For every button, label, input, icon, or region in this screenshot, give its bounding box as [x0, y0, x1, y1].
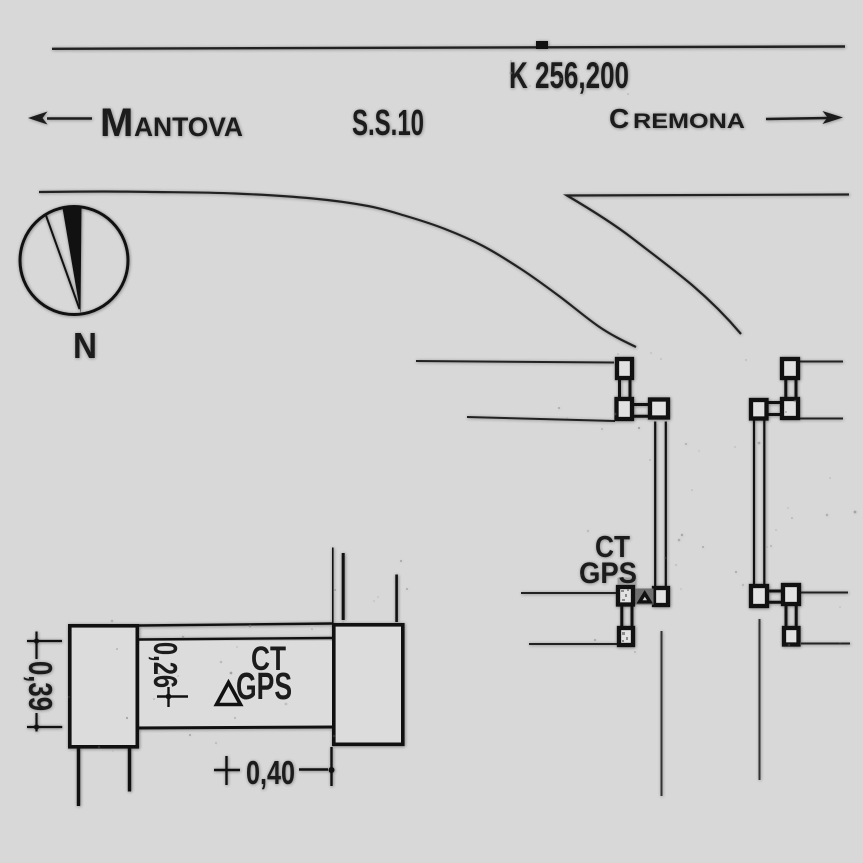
- post B upper bar square: [751, 400, 767, 419]
- post B upper junction square: [782, 399, 798, 418]
- svg-text:0,39: 0,39: [22, 661, 59, 711]
- side road line left of post A bottom: [521, 592, 616, 594]
- detail signal posts above right pillar: [332, 548, 334, 624]
- km marker square K256,200: [536, 41, 548, 49]
- post A upper crossbar: [634, 405, 650, 417]
- post A bottom neck: [622, 607, 632, 627]
- GPS station triangle marker: [637, 590, 654, 604]
- post B top square: [782, 359, 798, 378]
- post A upper bar square: [650, 400, 668, 418]
- road SS10 top edge line: [52, 47, 845, 49]
- post A upper junction square: [617, 399, 633, 419]
- side road line upper left of post A: [416, 361, 614, 363]
- lane line below post A: [661, 631, 663, 796]
- post B lower junction square: [783, 585, 799, 604]
- post B lower bar square: [751, 586, 767, 606]
- post B lower crossbar: [769, 591, 782, 602]
- svg-text:0,40: 0,40: [246, 754, 295, 791]
- post B bottom square: [784, 628, 799, 645]
- dimension 0,40 left tick cross: [214, 756, 240, 785]
- detail left pillar legs: [79, 749, 130, 807]
- post B upper crossbar: [768, 403, 780, 415]
- dimension 0,39 line and ticks: [27, 632, 62, 732]
- side road line right of post B mid: [800, 418, 843, 420]
- road lower edge curve (left carriageway): [39, 192, 636, 348]
- post B bottom neck: [786, 606, 796, 626]
- svg-text:GPS: GPS: [236, 666, 292, 708]
- post B top neck: [786, 380, 796, 397]
- side road line lower left of post A bottom: [529, 643, 617, 645]
- detail beam interior: [140, 641, 332, 726]
- compass needle black wedge: [63, 207, 82, 314]
- detail beam top outer line: [139, 624, 333, 626]
- svg-text:ANTOVA: ANTOVA: [134, 112, 243, 142]
- svg-text:K 256,200: K 256,200: [509, 55, 629, 96]
- side road line right of post B bottom: [801, 592, 848, 594]
- post A lower bar square: [654, 588, 668, 605]
- side road line lower left of post A: [467, 417, 615, 421]
- svg-text:GPS: GPS: [579, 557, 637, 590]
- svg-text:S.S.10: S.S.10: [352, 102, 424, 143]
- side road line right of post B top: [800, 361, 843, 363]
- lane line below post B: [759, 619, 761, 780]
- post B long bar: [754, 421, 764, 585]
- detail beam top inner line: [139, 638, 333, 640]
- road median line and curve (right carriageway): [567, 195, 849, 335]
- svg-text:C: C: [609, 103, 629, 134]
- compass needle thin line: [46, 216, 80, 310]
- post A top square: [617, 359, 632, 378]
- post A long bar: [655, 422, 666, 587]
- scan speckle noise: [68, 60, 856, 752]
- dimension 0,40 right extension line: [330, 747, 332, 786]
- compass circle: [20, 207, 128, 315]
- post A bottom square: [619, 628, 633, 645]
- detail left pillar rectangle: [70, 626, 138, 747]
- post A top neck: [620, 380, 631, 398]
- GPS station shading band: [635, 589, 654, 605]
- dimension 0,26 tick cross: [157, 687, 188, 707]
- post A lower junction square: [618, 587, 633, 605]
- svg-text:N: N: [73, 325, 97, 366]
- detail GPS triangle symbol: [217, 683, 241, 705]
- side road line lower right of post B bottom: [801, 643, 850, 645]
- dimension 0,40 line: [299, 768, 328, 770]
- svg-text:REMONA: REMONA: [633, 110, 745, 133]
- detail beam bottom line: [139, 727, 333, 728]
- svg-text:0,26: 0,26: [147, 642, 184, 688]
- arrow to Mantova: [47, 117, 92, 120]
- svg-text:M: M: [100, 101, 133, 145]
- detail right pillar rectangle: [334, 625, 403, 745]
- arrow to Cremona: [766, 118, 828, 119]
